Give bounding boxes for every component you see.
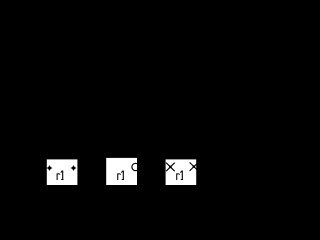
label r1 (instance 3) bbox=[176, 171, 183, 181]
resistor r1 (instance 1, symbol box) bbox=[47, 159, 78, 185]
pin marker cross (left pin of instance 3) bbox=[166, 163, 175, 172]
pin marker diamond (right pin of instance 1) bbox=[71, 165, 77, 171]
pin marker diamond (left pin of instance 1) bbox=[47, 165, 53, 171]
resistor r1 (instance 3, symbol box) bbox=[166, 159, 197, 185]
pin marker cross (right pin of instance 3) bbox=[190, 162, 199, 171]
pin marker circle (right pin of instance 2) bbox=[132, 163, 139, 170]
resistor r1 (instance 2, symbol box) bbox=[106, 158, 137, 185]
label r1 (instance 1) bbox=[57, 171, 64, 181]
junction dot (left pin of instance 3) bbox=[169, 166, 172, 169]
junction dot (right pin of instance 3) bbox=[193, 165, 196, 168]
label r1 (instance 2) bbox=[117, 171, 124, 181]
